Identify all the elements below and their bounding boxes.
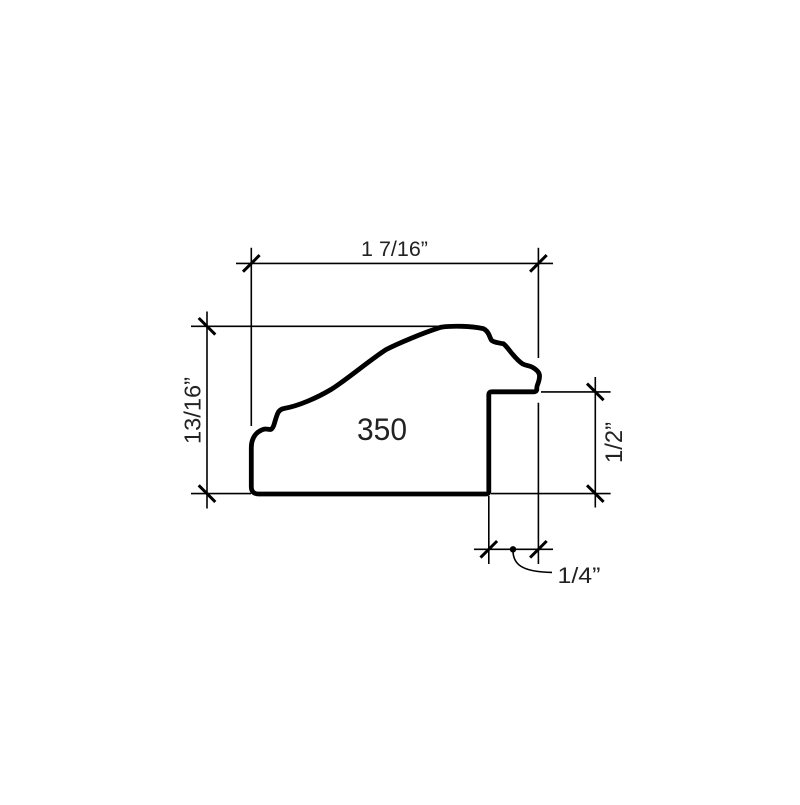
tick right-top	[587, 384, 604, 401]
tick left-bottom	[199, 485, 216, 502]
svg-text:1 7/16”: 1 7/16”	[361, 237, 428, 261]
left dimension line 13/16	[206, 312, 208, 509]
tick top-left	[243, 255, 260, 272]
left dim bottom extension line	[191, 493, 251, 495]
top dim left extension line	[250, 248, 252, 426]
moulding profile 350 outline	[251, 326, 539, 494]
bottom dimension 1/4 left extension line	[488, 496, 490, 564]
left dim top extension line	[191, 325, 441, 327]
tick right-bottom	[587, 485, 604, 502]
svg-text:13/16”: 13/16”	[179, 377, 205, 444]
top dim right extension line upper	[537, 248, 539, 358]
tick left-top	[199, 318, 216, 335]
top dimension line 1 7/16	[236, 262, 553, 264]
tick bottom-left	[481, 541, 498, 558]
leader dot	[510, 546, 516, 552]
svg-text:350: 350	[357, 411, 407, 447]
bottom dimension line 1/4	[474, 548, 553, 550]
top dim right extension line lower	[537, 403, 539, 564]
right dimension line 1/2	[594, 377, 596, 508]
right dim top extension line	[541, 391, 611, 393]
svg-text:1/2”: 1/2”	[601, 422, 628, 463]
svg-text:1/4”: 1/4”	[558, 563, 601, 588]
tick top-right	[530, 255, 547, 272]
tick bottom-right	[530, 541, 547, 558]
leader curve	[513, 552, 552, 573]
right dim bottom extension line	[491, 493, 611, 495]
